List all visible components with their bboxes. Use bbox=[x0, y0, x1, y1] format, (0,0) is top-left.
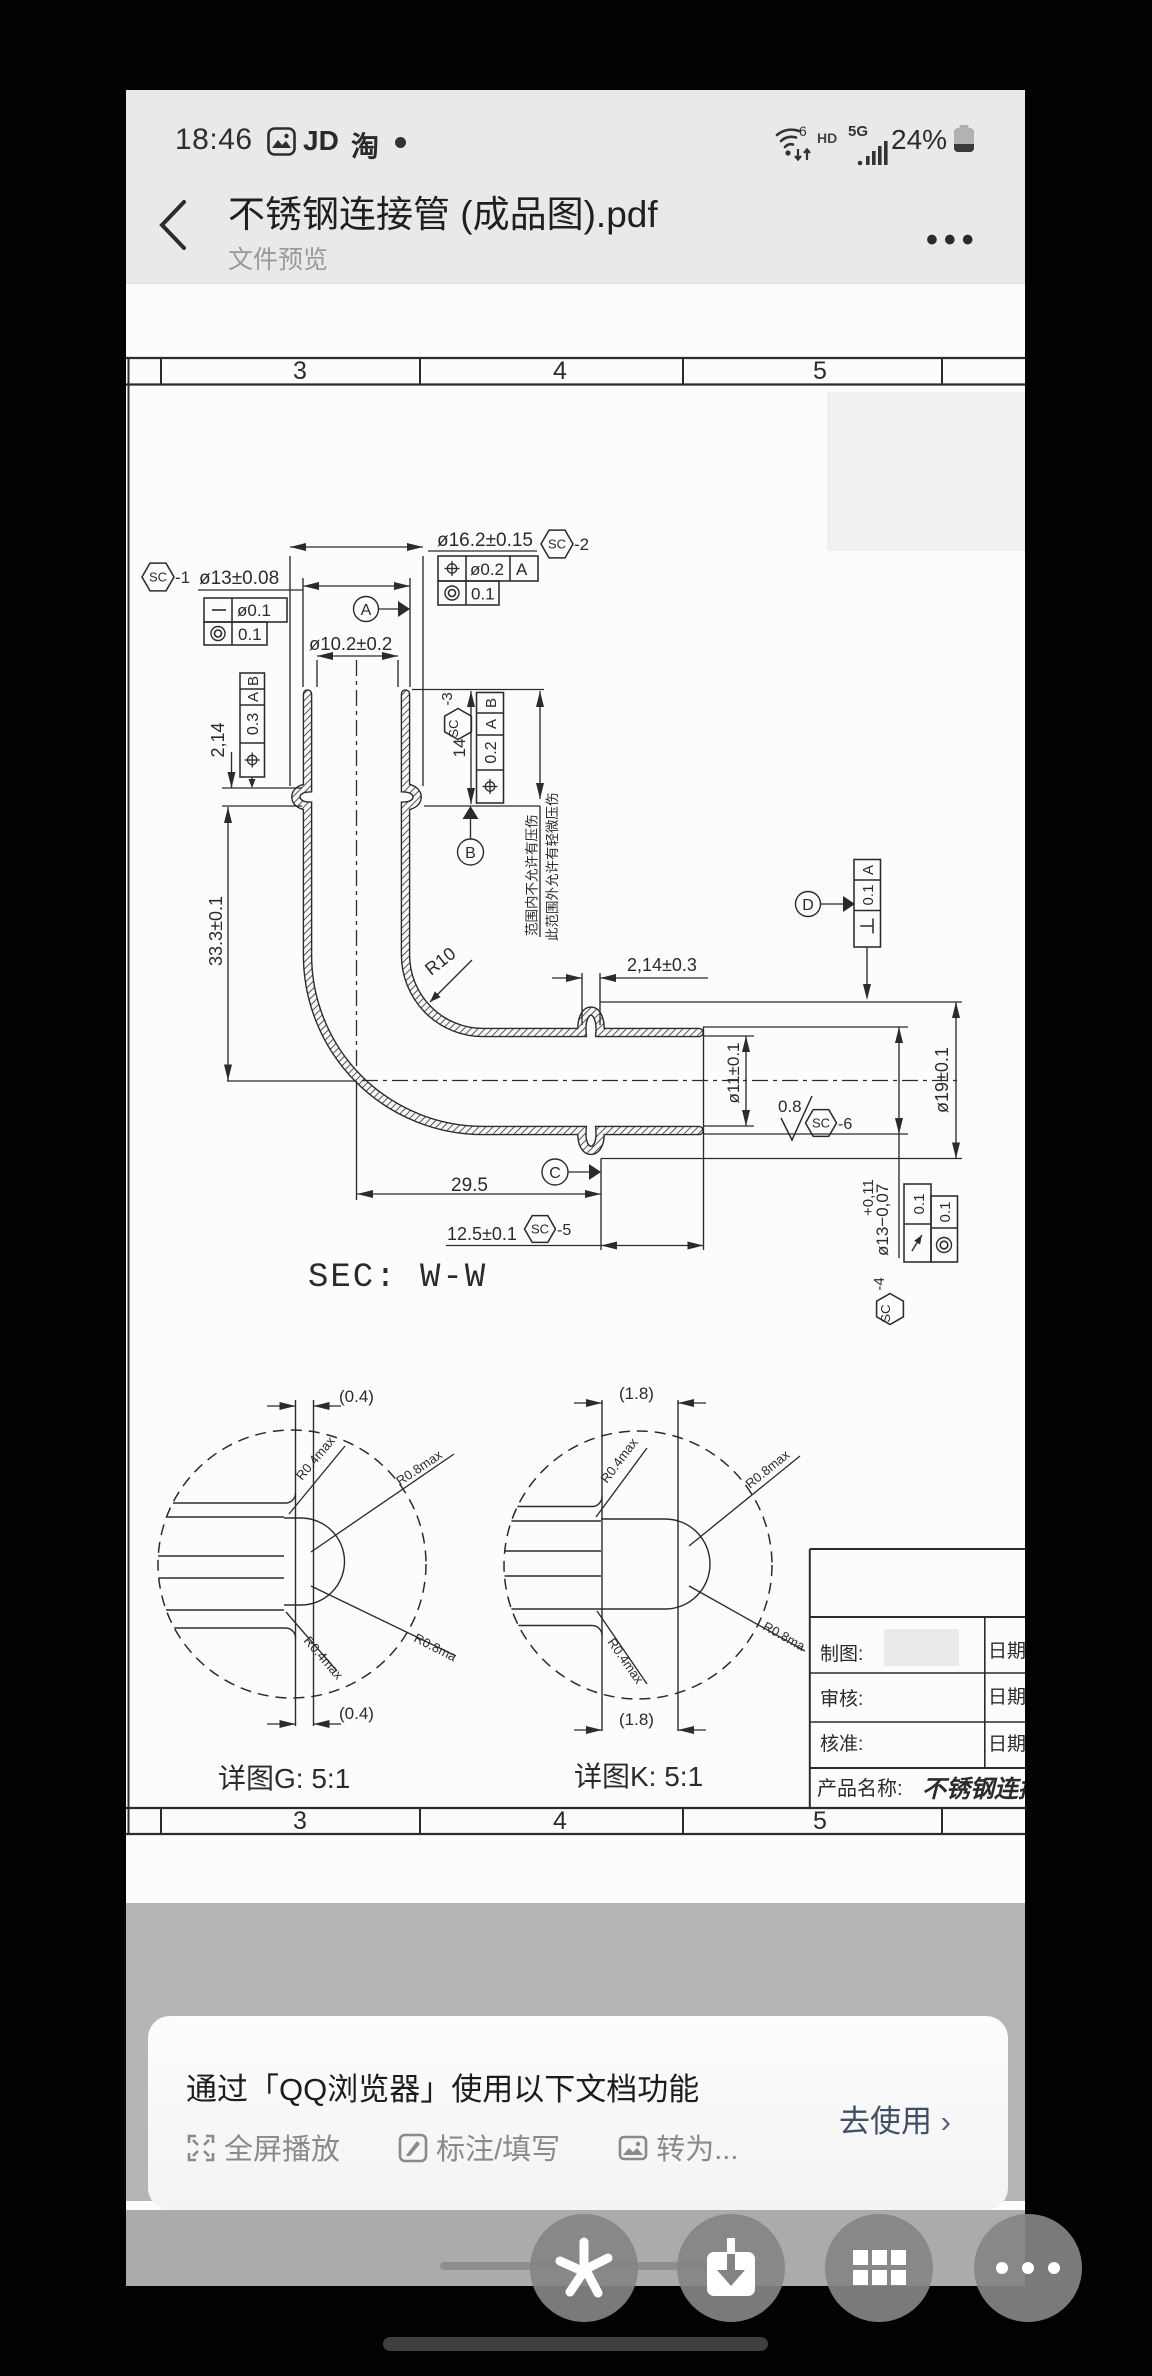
svg-text:(1.8): (1.8) bbox=[619, 1710, 654, 1729]
svg-text:ø11±0.1: ø11±0.1 bbox=[724, 1043, 743, 1104]
svg-text:C: C bbox=[549, 1165, 561, 1182]
svg-text:33.3±0.1: 33.3±0.1 bbox=[206, 896, 226, 966]
svg-text:0.3: 0.3 bbox=[245, 713, 262, 735]
svg-text:-2: -2 bbox=[574, 535, 589, 554]
svg-text:产品名称:: 产品名称: bbox=[817, 1777, 903, 1800]
svg-text:R0.4max: R0.4max bbox=[293, 1433, 338, 1483]
svg-text:6: 6 bbox=[799, 123, 807, 139]
svg-text:R0.4max: R0.4max bbox=[301, 1633, 347, 1682]
svg-text:R0.8ma: R0.8ma bbox=[412, 1630, 460, 1664]
svg-text:+0,11: +0,11 bbox=[860, 1179, 877, 1216]
svg-text:0.1: 0.1 bbox=[471, 585, 495, 604]
svg-text:详图K: 5:1: 详图K: 5:1 bbox=[574, 1761, 703, 1792]
svg-text:0.1: 0.1 bbox=[911, 1194, 928, 1215]
svg-text:-4: -4 bbox=[871, 1277, 888, 1290]
svg-text:不锈钢连接: 不锈钢连接 bbox=[922, 1776, 1025, 1803]
svg-text:A: A bbox=[361, 602, 372, 619]
svg-text:-1: -1 bbox=[175, 568, 190, 587]
svg-text:A: A bbox=[516, 560, 528, 579]
svg-text:ø0.2: ø0.2 bbox=[470, 560, 504, 579]
svg-text:审核:: 审核: bbox=[820, 1688, 863, 1710]
svg-text:R10: R10 bbox=[421, 943, 459, 979]
svg-text:(0.4): (0.4) bbox=[339, 1387, 374, 1406]
svg-text:日期: 日期 bbox=[988, 1686, 1025, 1708]
svg-text:A: A bbox=[245, 692, 262, 702]
svg-text:ø0.1: ø0.1 bbox=[237, 601, 271, 620]
svg-text:14: 14 bbox=[450, 739, 469, 758]
svg-text:2,14±0.3: 2,14±0.3 bbox=[627, 955, 697, 975]
svg-text:5: 5 bbox=[813, 357, 827, 385]
svg-text:(1.8): (1.8) bbox=[619, 1384, 654, 1403]
svg-text:5: 5 bbox=[813, 1807, 827, 1835]
svg-text:12.5±0.1: 12.5±0.1 bbox=[447, 1224, 517, 1244]
svg-text:SC: SC bbox=[548, 537, 566, 552]
svg-text:4: 4 bbox=[553, 357, 567, 385]
svg-text:SC: SC bbox=[878, 1305, 893, 1323]
svg-text:-3: -3 bbox=[439, 692, 456, 705]
svg-text:SC: SC bbox=[446, 720, 461, 738]
svg-text:0.1: 0.1 bbox=[860, 885, 877, 906]
svg-text:0.2: 0.2 bbox=[483, 741, 500, 763]
svg-text:A: A bbox=[860, 865, 877, 875]
svg-text:B: B bbox=[465, 845, 476, 862]
svg-text:核准:: 核准: bbox=[820, 1733, 863, 1755]
svg-text:SC: SC bbox=[531, 1222, 549, 1237]
svg-text:R0.8max: R0.8max bbox=[742, 1447, 792, 1492]
svg-text:R0.8max: R0.8max bbox=[393, 1447, 445, 1489]
svg-text:A: A bbox=[483, 719, 500, 729]
svg-text:日期: 日期 bbox=[988, 1733, 1025, 1755]
svg-text:5G: 5G bbox=[848, 123, 868, 140]
svg-text:D: D bbox=[802, 897, 814, 914]
svg-text:0.1: 0.1 bbox=[937, 1202, 954, 1223]
svg-text:R0.4max: R0.4max bbox=[605, 1635, 647, 1687]
svg-text:ø19±0.1: ø19±0.1 bbox=[932, 1047, 952, 1113]
svg-text:(0.4): (0.4) bbox=[339, 1704, 374, 1723]
svg-text:3: 3 bbox=[293, 1807, 307, 1835]
svg-text:SEC: W-W: SEC: W-W bbox=[308, 1259, 487, 1297]
svg-text:日期: 日期 bbox=[988, 1640, 1025, 1662]
svg-text:此范围外允许有轻微压伤: 此范围外允许有轻微压伤 bbox=[545, 793, 560, 942]
svg-text:ø13±0.08: ø13±0.08 bbox=[199, 568, 279, 589]
svg-text:29.5: 29.5 bbox=[451, 1175, 488, 1196]
svg-text:SC: SC bbox=[812, 1116, 830, 1131]
svg-text:0.1: 0.1 bbox=[238, 625, 262, 644]
svg-text:ø10.2±0.2: ø10.2±0.2 bbox=[309, 633, 392, 654]
svg-text:3: 3 bbox=[293, 357, 307, 385]
svg-text:-5: -5 bbox=[557, 1222, 571, 1239]
svg-text:R0.4max: R0.4max bbox=[597, 1435, 641, 1486]
svg-text:制图:: 制图: bbox=[820, 1643, 863, 1665]
svg-text:B: B bbox=[483, 698, 500, 708]
svg-text:范围内不允许有压伤: 范围内不允许有压伤 bbox=[525, 815, 540, 937]
svg-text:详图G: 5:1: 详图G: 5:1 bbox=[218, 1763, 350, 1794]
svg-text:0.8: 0.8 bbox=[778, 1097, 802, 1116]
svg-text:2,14: 2,14 bbox=[208, 722, 228, 757]
svg-text:R0.8ma: R0.8ma bbox=[761, 1619, 809, 1655]
svg-text:ø16.2±0.15: ø16.2±0.15 bbox=[437, 530, 533, 551]
svg-text:SC: SC bbox=[149, 570, 167, 585]
svg-text:B: B bbox=[245, 676, 262, 686]
svg-text:-6: -6 bbox=[838, 1116, 852, 1133]
svg-text:4: 4 bbox=[553, 1807, 567, 1835]
